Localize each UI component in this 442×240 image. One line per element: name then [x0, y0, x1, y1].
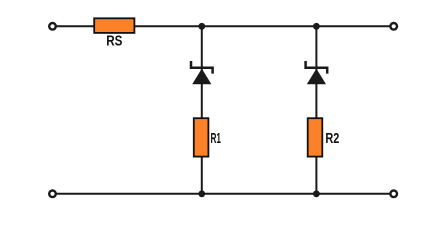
- resistor R2: [308, 118, 323, 156]
- wire: bottom rail, node C to node D: [202, 193, 317, 195]
- terminal T2 (top right output): [390, 23, 397, 30]
- wire: bottom rail, terminal T3 to node C: [55, 193, 202, 195]
- svg-text:RS: RS: [106, 32, 122, 49]
- zener diode D2: [306, 61, 328, 84]
- terminal T3 (bottom left): [49, 191, 56, 198]
- svg-text:R1: R1: [211, 130, 222, 147]
- svg-text:R2: R2: [325, 130, 339, 147]
- resistor R1: [194, 118, 209, 156]
- label R1 value: [211, 130, 222, 147]
- wire: top rail, node A to node B: [202, 25, 317, 27]
- terminal T4 (bottom right): [390, 191, 397, 198]
- wire: branch 2 vertical, node B down to node D: [315, 26, 317, 194]
- label RS value: [106, 32, 122, 49]
- resistor RS: [94, 18, 134, 33]
- terminal T1 (top left input): [49, 23, 56, 30]
- node A junction dot (top rail / branch 1): [198, 23, 205, 30]
- wire: top rail, node B to terminal T2: [316, 25, 391, 27]
- node B junction dot (top rail / branch 2): [313, 23, 320, 30]
- node D junction dot (bottom rail / branch 2): [313, 190, 320, 197]
- wire: bottom rail, node D to terminal T4: [316, 193, 391, 195]
- zener diode D1: [191, 61, 213, 84]
- wire: top rail, terminal T1 to resistor RS: [55, 25, 94, 27]
- wire: branch 1 vertical, node A down to node C: [201, 26, 203, 194]
- label R2 value: [325, 130, 339, 147]
- node C junction dot (bottom rail / branch 1): [198, 190, 205, 197]
- wire: top rail, resistor RS to node A: [135, 25, 202, 27]
